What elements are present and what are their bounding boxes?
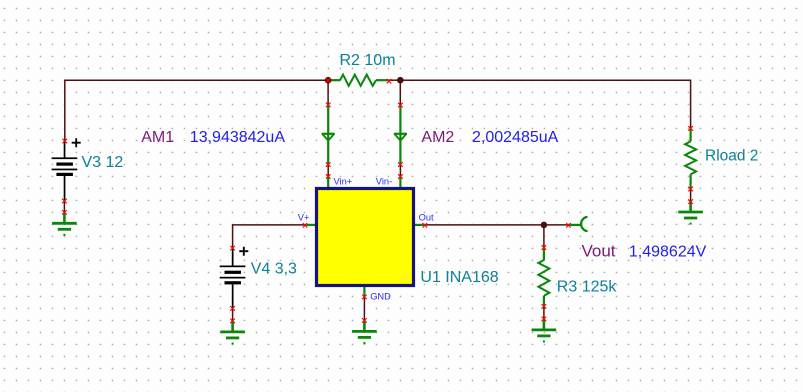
svg-text:1,498624V: 1,498624V [629, 243, 707, 260]
svg-text:Rload 2: Rload 2 [705, 147, 758, 164]
wire AM2 to Vin- pin [399, 165, 401, 177]
wire junction B to AM2 [399, 80, 401, 105]
battery V4 [220, 247, 249, 309]
ground (R3) [532, 319, 557, 343]
node B junction [397, 77, 404, 84]
wire junction A to AM1 [327, 80, 329, 105]
svg-text:13,943842uA: 13,943842uA [190, 129, 286, 146]
svg-text:AM2: AM2 [421, 129, 454, 146]
wire R2 left lead [328, 79, 340, 81]
ammeter AM2 wire [399, 105, 401, 164]
wire V4 bottom to ground [232, 308, 234, 321]
pin V+ stub [305, 224, 316, 226]
wire top rail [65, 80, 328, 141]
svg-text:U1 INA168: U1 INA168 [420, 269, 498, 286]
pin Vin+ stub [327, 177, 329, 189]
wire rail right [400, 80, 690, 128]
resistor Rload leads [689, 128, 691, 188]
resistor R3 zigzag [538, 260, 549, 296]
wire GND pin to ground [363, 297, 365, 321]
ground (V4) [220, 321, 245, 345]
terminal X marks [62, 78, 693, 323]
wire V+ pin to V4 [233, 225, 305, 248]
pin GND stub [363, 286, 365, 297]
svg-text:AM1: AM1 [141, 129, 174, 146]
resistor Rload zigzag [685, 141, 696, 174]
IC U1 INA168 body [317, 189, 414, 286]
svg-text:GND: GND [370, 292, 391, 302]
wire Out pin to Vout probe [425, 224, 569, 226]
voltage pin Vout lead [569, 224, 582, 226]
resistor R3 leads [543, 248, 545, 307]
svg-text:R3 125k: R3 125k [557, 278, 618, 295]
wire R3 bottom to ground [543, 306, 545, 319]
wire R2 right lead to junction B [389, 79, 401, 81]
svg-text:Vin-: Vin- [376, 177, 392, 187]
wire R2 right lead [376, 79, 389, 81]
resistor R2 zigzag [340, 75, 376, 86]
svg-text:V3 12: V3 12 [82, 154, 124, 171]
svg-text:Vin+: Vin+ [334, 177, 353, 187]
pin Vin- stub [399, 177, 401, 189]
ammeter AM2 arrow [394, 134, 407, 141]
ground (U1 GND) [352, 320, 377, 344]
voltage pin Vout arc [581, 217, 587, 231]
node Out junction [541, 222, 548, 229]
ground (V3) [52, 212, 77, 236]
svg-text:2,002485uA: 2,002485uA [472, 129, 559, 146]
battery V3 [52, 138, 81, 201]
ammeter AM1 arrow [322, 134, 335, 141]
svg-text:V4 3,3: V4 3,3 [251, 261, 297, 278]
svg-text:Out: Out [419, 213, 434, 223]
wire AM1 to Vin+ pin [327, 165, 329, 177]
ground (Rload) [678, 201, 703, 225]
ammeter AM1 wire [327, 105, 329, 165]
pin Out stub [414, 224, 425, 226]
svg-text:Vout: Vout [582, 242, 616, 261]
wire node Out to R3 [543, 225, 545, 248]
wire Rload bottom to ground [690, 189, 692, 202]
node A junction [325, 77, 332, 84]
svg-text:V+: V+ [298, 213, 310, 223]
wire V3 bottom to ground [63, 201, 65, 212]
svg-text:R2 10m: R2 10m [340, 52, 396, 69]
